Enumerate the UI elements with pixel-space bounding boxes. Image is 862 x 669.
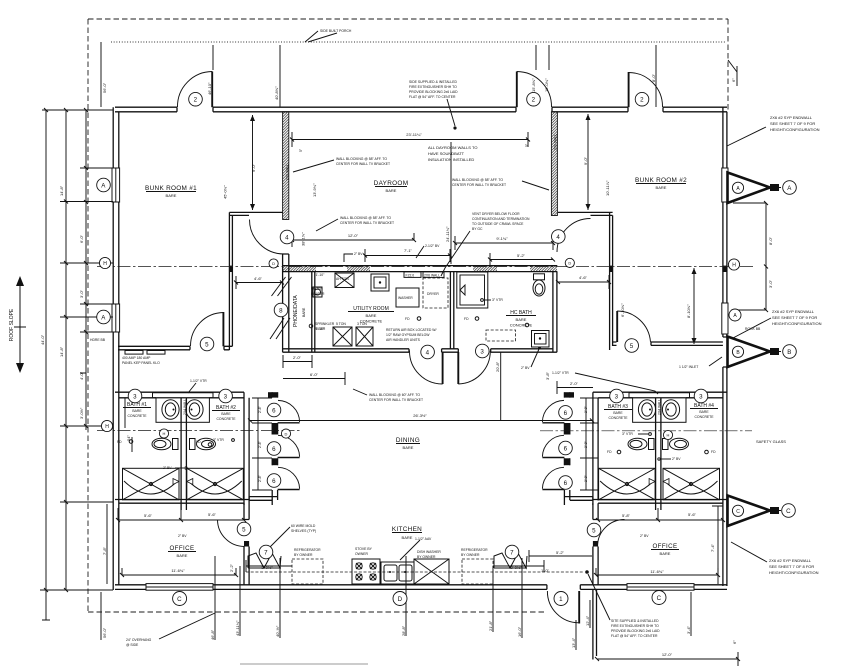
svg-text:SAFETY GLASS: SAFETY GLASS: [756, 439, 786, 444]
shower row L bottom wall / office L top wall: [115, 500, 249, 504]
svg-text:BARE: BARE: [516, 317, 527, 322]
svg-text:A: A: [101, 182, 106, 189]
svg-text:DINING: DINING: [396, 437, 420, 444]
door D6A leaf and arc: [278, 422, 300, 424]
sink S1: [162, 400, 179, 420]
grid bubble A left wall: [97, 178, 111, 192]
dryer vent boxed labels: [404, 272, 421, 278]
svg-text:FD: FD: [711, 450, 716, 454]
svg-text:REFRIGERATOR: REFRIGERATOR: [294, 548, 321, 552]
right dim chain 8-0 3-0: [733, 203, 766, 310]
svg-text:5'-6": 5'-6": [688, 512, 697, 517]
kitchen dim 3-0 R: [493, 560, 544, 572]
grid bubble H right wall: [728, 259, 739, 270]
svg-text:BARE: BARE: [177, 553, 188, 558]
vanity bath12 counter: [156, 398, 209, 423]
dining width dim 26-3: [250, 420, 592, 422]
shower valve symbols R: [649, 479, 669, 485]
svg-text:5'-2": 5'-2": [556, 550, 565, 555]
kitchen shelves zigzag right: [494, 553, 527, 568]
leader endwall note bottom: [731, 542, 767, 562]
svg-text:PROVIDE BLOCKING 2x6 LAID: PROVIDE BLOCKING 2x6 LAID: [409, 90, 458, 94]
grid bubble 4 left: [280, 230, 294, 244]
svg-text:2X6 WALL: 2X6 WALL: [286, 164, 290, 180]
svg-text:24" OVERHANG: 24" OVERHANG: [126, 638, 152, 642]
svg-text:44'-0": 44'-0": [40, 334, 45, 345]
svg-text:FD: FD: [196, 440, 201, 444]
svg-text:6": 6": [732, 640, 737, 644]
wall bunk1 southeast horizontal: [229, 212, 283, 215]
svg-text:H: H: [732, 263, 736, 269]
grid bubble H bath R: [663, 430, 672, 439]
svg-text:D: D: [398, 596, 403, 603]
svg-text:1'-10": 1'-10": [316, 327, 325, 331]
svg-text:2" BV: 2" BV: [354, 252, 363, 256]
svg-text:BARE: BARE: [403, 445, 414, 450]
svg-text:FLAT @ 54" AFF. TO CENTER: FLAT @ 54" AFF. TO CENTER: [409, 95, 456, 99]
svg-text:BUNK ROOM #1: BUNK ROOM #1: [145, 185, 197, 192]
grid bubble 5 office R: [587, 523, 601, 537]
bath cluster R top wall: [593, 392, 727, 398]
svg-text:BY GC: BY GC: [472, 227, 483, 231]
svg-text:6'-0": 6'-0": [79, 234, 84, 243]
floor drain bath3: [617, 450, 621, 454]
grid bubble 1 bottom: [554, 592, 568, 606]
svg-text:43'-11¾": 43'-11¾": [235, 620, 240, 636]
grid bubble 7 L: [259, 545, 273, 559]
note vent dryer: [472, 212, 530, 231]
room label bunk room 2: [635, 177, 687, 190]
svg-text:20'-8": 20'-8": [495, 361, 500, 372]
svg-text:1: 1: [559, 596, 563, 603]
utility sink: [371, 274, 389, 291]
svg-text:3" VTR: 3" VTR: [492, 298, 503, 302]
svg-text:WASHER: WASHER: [398, 296, 413, 300]
grid bubble A left wall 2: [97, 310, 111, 324]
bath dim strings R 2-8: [580, 398, 598, 490]
note shelves L: [291, 524, 316, 533]
floor drain hc: [525, 323, 529, 327]
hc toilet: [533, 274, 545, 296]
svg-text:2: 2: [532, 97, 536, 104]
svg-text:2X6 #2 SYP ENDWALL: 2X6 #2 SYP ENDWALL: [772, 309, 815, 314]
grid bubble C bottom L: [173, 592, 187, 606]
svg-text:56'-0": 56'-0": [102, 627, 107, 638]
svg-text:2'-8": 2'-8": [584, 474, 588, 482]
room label bunk room 1: [145, 185, 197, 198]
svg-text:BUNK ROOM #2: BUNK ROOM #2: [635, 177, 687, 184]
svg-text:H: H: [105, 424, 109, 430]
note wall blocking L4: [369, 393, 423, 402]
svg-text:FIRE EXTINGUISHER SHH TO: FIRE EXTINGUISHER SHH TO: [409, 85, 457, 89]
svg-text:3'-4": 3'-4": [686, 625, 691, 634]
shower row R bottom wall / office R top wall: [593, 500, 727, 504]
hc bath shower: [457, 272, 488, 308]
office L dim 7-8 vertical: [106, 504, 108, 584]
room label office L: [168, 545, 196, 558]
svg-text:@ SIDE: @ SIDE: [126, 643, 139, 647]
bath chase wall R with door jambs: [564, 392, 569, 505]
note fire extinguisher top: [409, 80, 458, 99]
svg-text:BARE: BARE: [660, 551, 671, 556]
svg-text:SIDE BUILT PORCH: SIDE BUILT PORCH: [320, 29, 352, 33]
svg-text:CENTER FOR WALL TV BRACKET: CENTER FOR WALL TV BRACKET: [336, 162, 390, 166]
window W1 left wall upper: [112, 168, 120, 202]
grid bubble 2c: [635, 92, 649, 106]
svg-text:7: 7: [510, 549, 514, 556]
note fire extinguisher bottom: [611, 619, 660, 638]
office R dim 7-4 vertical: [712, 506, 723, 584]
svg-text:A: A: [787, 185, 792, 192]
svg-text:6'-10⅝": 6'-10⅝": [620, 303, 625, 317]
svg-text:23'-11¼": 23'-11¼": [406, 132, 422, 137]
svg-text:6: 6: [564, 410, 568, 417]
entry door opening jambs: [547, 585, 580, 590]
svg-text:FD: FD: [607, 450, 612, 454]
dish washer x-box: [414, 559, 449, 584]
shower SH1: [123, 468, 180, 500]
door D4R bunk2 hall arc: [557, 219, 591, 253]
svg-text:4: 4: [285, 234, 289, 241]
toilet T4: [663, 438, 689, 450]
svg-text:6: 6: [272, 407, 276, 414]
endwall triangle C: [728, 496, 782, 527]
svg-text:2'-2": 2'-2": [229, 563, 234, 572]
kitchen shelves zigzag left: [248, 553, 281, 568]
door D6B leaf and arc: [278, 457, 300, 459]
svg-text:14'-8": 14'-8": [59, 185, 64, 196]
svg-text:6": 6": [731, 78, 736, 82]
svg-text:2'-0": 2'-0": [570, 381, 579, 386]
svg-text:RETURN AIR BOX LOCATED W/: RETURN AIR BOX LOCATED W/: [386, 328, 436, 332]
svg-text:SITE SUPPLIED & INSTALLED: SITE SUPPLIED & INSTALLED: [611, 619, 659, 623]
room label phone data: [293, 295, 306, 327]
filled node centerline at bunk walls: [229, 266, 232, 272]
svg-text:400 AMP 180 AMP: 400 AMP 180 AMP: [122, 356, 151, 360]
svg-text:38'-1⅝": 38'-1⅝": [301, 232, 306, 246]
kitchen double sink: [381, 562, 414, 584]
svg-text:FIRE EXTINGUISHER SHH TO: FIRE EXTINGUISHER SHH TO: [611, 624, 659, 628]
svg-text:3'-0": 3'-0": [79, 289, 84, 298]
svg-text:F22.0: F22.0: [406, 273, 415, 277]
svg-text:3: 3: [133, 393, 137, 400]
svg-text:7'-1": 7'-1": [404, 248, 413, 253]
shower dims R 5-6 5-6: [598, 508, 723, 520]
svg-text:24'-11¾": 24'-11¾": [445, 226, 450, 242]
dayroom width dim line 23-11: [292, 132, 528, 147]
grid bubble C bottom R: [652, 591, 666, 605]
utility and hcbath south wall: [283, 349, 557, 352]
svg-text:2-1/2" BV: 2-1/2" BV: [425, 244, 440, 248]
grid bubble 8 phone: [274, 303, 288, 317]
door hcbath leaf and arc: [457, 352, 459, 384]
note dish washer: [417, 550, 441, 559]
svg-text:3: 3: [615, 393, 619, 400]
left dim chain line inner: [80, 110, 113, 430]
panel boards on hall wall: [125, 351, 165, 355]
note water heater: [311, 287, 325, 296]
left dim chain line 44ft: [40, 110, 113, 620]
grid bubble A right: [783, 181, 797, 195]
door D5L bunk1 leaf and arc: [222, 312, 224, 346]
svg-text:40'-½": 40'-½": [275, 625, 280, 637]
svg-text:WATER: WATER: [311, 287, 323, 291]
svg-text:D: D: [285, 431, 288, 436]
svg-text:10'-11⅞": 10'-11⅞": [605, 180, 610, 196]
svg-text:5 TON: 5 TON: [336, 322, 346, 326]
note stove: [355, 547, 373, 556]
shower dims L 5-6 5-6: [118, 508, 244, 520]
endwall triangle B: [728, 337, 782, 368]
svg-text:FD: FD: [405, 317, 410, 321]
svg-text:SEE SHEET 7 OF 9 FOR: SEE SHEET 7 OF 9 FOR: [772, 315, 817, 320]
bath cluster L mid wall: [181, 398, 186, 510]
svg-text:H: H: [163, 431, 166, 436]
svg-text:2X6 WALL: 2X6 WALL: [424, 273, 440, 277]
svg-text:6'-0": 6'-0": [310, 372, 319, 377]
leader endwall note mid: [733, 318, 771, 338]
vanity bath34 counter: [633, 398, 686, 423]
svg-text:14'-8": 14'-8": [59, 346, 64, 357]
bunk1 interior dim 9-0 vertical: [252, 115, 254, 210]
svg-text:BY OWNER: BY OWNER: [294, 553, 313, 557]
svg-text:3'-0½": 3'-0½": [79, 407, 84, 419]
svg-text:4'-6": 4'-6": [579, 275, 588, 280]
svg-text:CONCRETE: CONCRETE: [510, 323, 533, 328]
stove with burners: [352, 559, 380, 584]
note overhang: [126, 638, 152, 647]
svg-text:H: H: [667, 433, 670, 438]
dim line 24-11 vertical center: [450, 142, 452, 264]
water heater: [313, 287, 322, 297]
note all dayroom walls: [428, 145, 478, 162]
svg-text:KITCHEN: KITCHEN: [392, 526, 422, 533]
air handler unit AH2: [333, 327, 352, 346]
door D6D leaf and arc: [542, 422, 564, 424]
leader 2bv hc: [531, 349, 539, 367]
note endwall mid: [772, 309, 822, 326]
grid bubble 2a: [189, 92, 203, 106]
right wall window symbols: [722, 168, 728, 202]
dayroom dim 12-0 line: [292, 233, 414, 247]
svg-text:2'-0": 2'-0": [293, 355, 302, 360]
grid bubble B right: [783, 345, 797, 359]
center hatched wall along grid H: [283, 266, 558, 272]
svg-text:REFRIGERATOR: REFRIGERATOR: [461, 548, 488, 552]
bath chase wall L with door jambs: [272, 392, 277, 505]
dim 9-1 line: [455, 236, 553, 250]
svg-text:OFFICE: OFFICE: [652, 543, 677, 550]
leader fire ext note bottom: [588, 574, 610, 620]
svg-text:3 TON: 3 TON: [357, 322, 367, 326]
svg-text:DAYROOM: DAYROOM: [374, 180, 409, 187]
floor drain bath1: [129, 440, 133, 444]
svg-text:5'-8": 5'-8": [622, 513, 631, 518]
leader endwall note top: [727, 127, 766, 146]
note 400 amp panels: [122, 356, 160, 365]
exterior right wall: [723, 107, 727, 586]
svg-text:DRYER: DRYER: [427, 292, 439, 296]
svg-text:BARE: BARE: [613, 411, 623, 415]
svg-text:5'-6": 5'-6": [144, 513, 153, 518]
svg-text:CENTER FOR WALL TV BRACKET: CENTER FOR WALL TV BRACKET: [340, 221, 394, 225]
svg-text:5: 5: [205, 341, 209, 348]
svg-text:HEATER: HEATER: [311, 292, 325, 296]
bunk1 south wall: [118, 346, 232, 350]
kitchen counter dashed line: [246, 571, 584, 573]
wall bunk2 southwest horizontal: [558, 212, 613, 215]
note return air: [386, 328, 436, 342]
wall bunk2 west vertical: [610, 212, 613, 350]
grid bubble H left wall: [99, 257, 110, 268]
room label kitchen: [392, 526, 422, 540]
svg-text:46'-8": 46'-8": [210, 629, 215, 640]
svg-text:H: H: [103, 261, 107, 267]
svg-text:HEIGHT/CONFIGURATION: HEIGHT/CONFIGURATION: [769, 570, 819, 575]
grid bubble 6 e: [559, 441, 573, 455]
room label dining: [396, 437, 420, 450]
room label hc bath: [506, 310, 536, 328]
svg-text:2X6 #2 SYP ENDWALL: 2X6 #2 SYP ENDWALL: [769, 558, 812, 563]
dim 2-0 phone: [283, 355, 312, 368]
roof overhang dashed boundary: [88, 19, 728, 612]
dim 8-10 vertical bunk2 low: [693, 268, 695, 344]
svg-text:C: C: [177, 596, 182, 603]
leader fire ext note top: [447, 99, 455, 126]
svg-text:OFFICE: OFFICE: [169, 545, 194, 552]
shower valve symbols L: [173, 479, 193, 485]
svg-text:BARE: BARE: [699, 410, 709, 414]
grid bubble 5 bunk2: [625, 339, 639, 353]
office west wall extension down: [593, 589, 597, 659]
svg-text:STOVE BY: STOVE BY: [355, 547, 373, 551]
svg-text:2X4 WALL: 2X4 WALL: [658, 399, 662, 415]
floor drain utility 2: [475, 317, 479, 321]
svg-text:2'-8": 2'-8": [258, 405, 262, 413]
gable overhang jog note 6in top right: [728, 60, 737, 86]
svg-text:1'-10": 1'-10": [316, 273, 325, 277]
wall break symbol phone/data lower: [270, 318, 290, 339]
office L east wall with door opening: [244, 500, 249, 585]
svg-text:2X6 #2 SYP ENDWALL: 2X6 #2 SYP ENDWALL: [770, 115, 813, 120]
svg-text:CONTINUATION AND TERMINATION: CONTINUATION AND TERMINATION: [472, 217, 530, 221]
door D6C leaf and arc: [278, 489, 300, 491]
room label dayroom: [374, 180, 409, 193]
dim 7-1 line: [365, 249, 450, 262]
svg-text:FD: FD: [464, 317, 469, 321]
grid bubble 3 bath1: [128, 389, 142, 403]
toilet T2: [190, 438, 216, 450]
sink S4: [662, 400, 679, 420]
svg-text:46'-10": 46'-10": [207, 82, 212, 95]
grid bubble H bath L: [159, 429, 168, 438]
grid bubble 3 bath3: [610, 389, 624, 403]
centerline grid H main: [97, 266, 755, 268]
svg-text:45'-0¾": 45'-0¾": [223, 185, 228, 199]
bath 54in dim vertical: [125, 398, 132, 452]
svg-text:8'-0": 8'-0": [768, 236, 773, 245]
svg-text:2" BV: 2" BV: [672, 457, 681, 461]
door office R arc: [598, 520, 625, 547]
svg-text:9'-1¾": 9'-1¾": [496, 236, 508, 241]
svg-text:DISH WASHER: DISH WASHER: [417, 550, 441, 554]
svg-text:2'-8": 2'-8": [584, 440, 588, 448]
window bottom left office: [146, 584, 213, 591]
centerline bath row right: [540, 430, 752, 432]
grid bubble 6 d: [559, 406, 573, 420]
leader wall blocking L4: [353, 389, 367, 395]
svg-text:3'-0": 3'-0": [768, 279, 773, 288]
svg-text:6: 6: [564, 445, 568, 452]
grid bubble 3 hc: [476, 344, 490, 358]
room label bath1: [123, 402, 151, 418]
svg-text:1/2" RAW GYPSUM BELOW: 1/2" RAW GYPSUM BELOW: [386, 333, 430, 337]
door utility leaf and arc: [442, 352, 444, 384]
svg-text:8: 8: [279, 307, 283, 314]
bath dim strings L 2-8: [252, 398, 272, 490]
dim 5-2 right kitchen: [529, 550, 592, 562]
svg-text:12'-0": 12'-0": [348, 233, 359, 238]
svg-text:PHONE/DATA: PHONE/DATA: [293, 295, 299, 327]
grid bubble D hall L: [269, 259, 278, 268]
chase bottom step wall R: [564, 497, 593, 501]
porch deck dotted line: [111, 41, 726, 43]
leader wall blocking L1: [293, 160, 334, 172]
grid bubble 6 f: [559, 476, 573, 490]
door D6E leaf and arc: [542, 457, 564, 459]
svg-text:HDRE BB: HDRE BB: [90, 338, 106, 342]
svg-text:ALL DAYROOM WALLS TO: ALL DAYROOM WALLS TO: [428, 145, 478, 150]
svg-text:4'-0": 4'-0": [79, 371, 84, 380]
svg-text:6: 6: [564, 480, 568, 487]
svg-text:WALL BLOCKING @ 60" AFF. TO: WALL BLOCKING @ 60" AFF. TO: [369, 393, 420, 397]
bottom center heavy bar: [240, 663, 368, 665]
note refrigerator R: [461, 548, 488, 557]
note wall blocking L3: [340, 216, 394, 225]
svg-text:15'-8⅝": 15'-8⅝": [531, 78, 536, 92]
svg-text:11'-6¾": 11'-6¾": [650, 569, 664, 574]
svg-text:CONCRETE: CONCRETE: [694, 415, 714, 419]
svg-text:2'-8": 2'-8": [258, 440, 262, 448]
svg-text:5: 5: [242, 526, 246, 533]
svg-text:4: 4: [556, 234, 560, 241]
svg-text:9'-0": 9'-0": [251, 163, 256, 172]
svg-text:FLAT @ 54" AFF. TO CENTER: FLAT @ 54" AFF. TO CENTER: [611, 634, 658, 638]
chase bottom step wall L: [249, 497, 278, 501]
svg-text:2: 2: [194, 97, 198, 104]
shower SH3: [599, 468, 656, 500]
svg-text:PANEL KEP PANEL KLO: PANEL KEP PANEL KLO: [122, 361, 160, 365]
top door D2B leaf and arc: [516, 72, 518, 108]
leader aav: [400, 540, 420, 560]
svg-text:BARE: BARE: [656, 185, 667, 190]
bath cluster L west wall: [244, 392, 249, 505]
note wall blocking L1: [336, 157, 390, 166]
svg-text:PROVIDE BLOCKING 2x6 LAID: PROVIDE BLOCKING 2x6 LAID: [611, 629, 660, 633]
office R west wall with door opening: [593, 503, 598, 585]
grid bubble 3 bath2: [219, 389, 233, 403]
note endwall top: [770, 115, 820, 132]
wall phone/data west: [283, 254, 289, 352]
leader shelves note L: [268, 527, 290, 549]
svg-text:VENT DRYER BELOW FLOOR: VENT DRYER BELOW FLOOR: [472, 212, 520, 216]
svg-text:13'-4": 13'-4": [571, 637, 576, 648]
door D5R bunk2 leaf and arc: [616, 311, 618, 342]
wall hcbath east: [553, 272, 557, 353]
hc lavatory: [532, 331, 550, 348]
svg-text:CENTER FOR WALL TV BRACKET: CENTER FOR WALL TV BRACKET: [452, 183, 506, 187]
bottom vestibule dim 12-0: [597, 652, 738, 666]
